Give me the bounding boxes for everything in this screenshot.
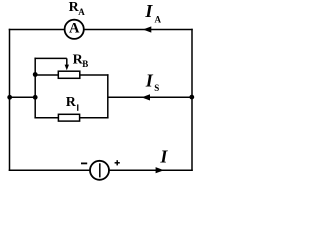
arrow I current direction <box>156 167 164 173</box>
wire R_B right lead <box>80 74 109 76</box>
ammeter U1 <box>65 20 84 39</box>
wire I_S rail <box>108 96 192 98</box>
junction node on left wire <box>7 95 12 100</box>
svg-text:S: S <box>154 83 159 93</box>
junction node right rail <box>189 95 194 100</box>
wire left vertical <box>9 29 11 171</box>
wire R_B left lead <box>35 74 58 76</box>
wire top segment right of ammeter <box>84 29 192 31</box>
wire wiper loop top <box>34 57 66 59</box>
label I_S <box>145 71 160 93</box>
wire top segment left of ammeter <box>9 29 64 31</box>
label plus polarity <box>115 160 120 165</box>
wire right vertical <box>191 29 193 171</box>
wiper arrow onto R_B <box>65 58 69 70</box>
svg-text:R: R <box>66 95 77 110</box>
svg-text:A: A <box>69 20 80 36</box>
resistor R1 body <box>58 114 79 121</box>
svg-text:I: I <box>145 71 154 91</box>
svg-text:I: I <box>159 147 168 167</box>
svg-text:A: A <box>155 14 162 24</box>
junction node parallel-block left <box>33 95 38 100</box>
resistor R_B body <box>58 71 80 78</box>
current source B1 <box>90 161 109 180</box>
label R1 <box>66 95 79 111</box>
wire bottom segment right of source <box>109 169 193 171</box>
label R_B <box>73 52 89 69</box>
wire R1 left lead <box>34 117 58 119</box>
label minus polarity <box>81 162 87 164</box>
label I_A <box>144 1 161 24</box>
svg-text:A: A <box>78 7 85 17</box>
wire middle rail left <box>10 96 36 98</box>
wire parallel-block right vertical <box>107 74 109 118</box>
svg-text:B: B <box>82 59 88 69</box>
arrow I_A current direction <box>143 26 151 32</box>
junction node R_B tap <box>33 72 38 77</box>
wire bottom segment left of source <box>9 169 90 171</box>
wire parallel-block left vertical <box>34 58 36 119</box>
label R_A <box>69 0 86 17</box>
svg-text:I: I <box>144 1 153 21</box>
arrow I_S current direction <box>142 94 151 100</box>
wire R1 right lead <box>80 117 109 119</box>
